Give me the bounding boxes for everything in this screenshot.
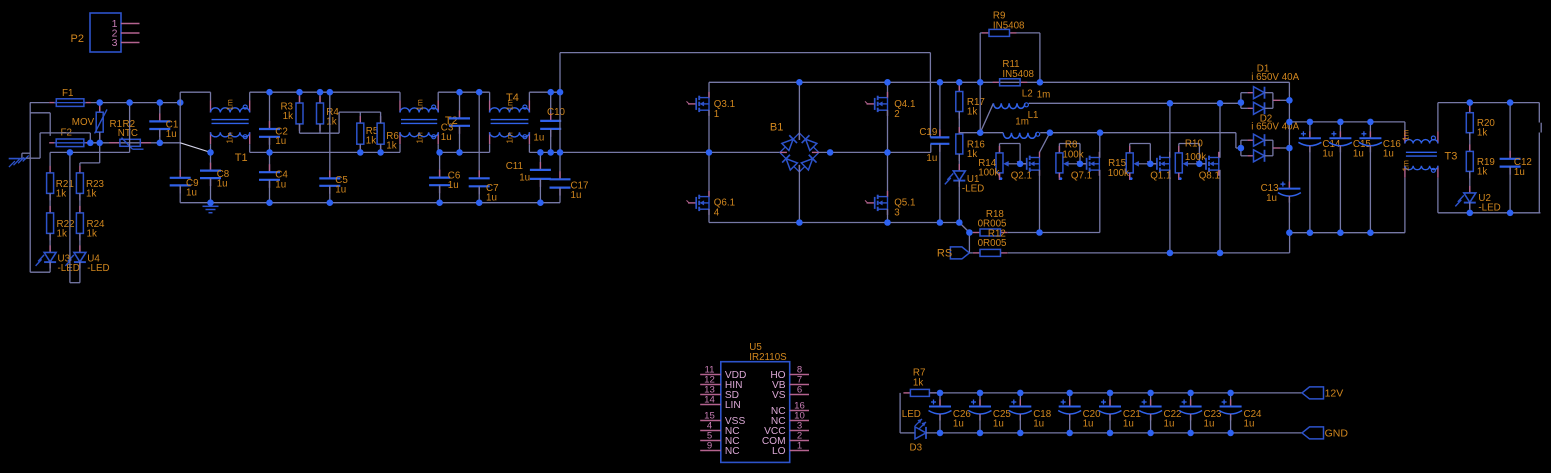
junction 12V rail / C23 (1187, 390, 1194, 397)
junction plus rail / C15 (1337, 119, 1344, 126)
pin 2 (COM) of U5 (790, 440, 809, 442)
wire R7 left riser (899, 393, 901, 433)
wire R6 bottom (380, 144, 382, 152)
junction bottom rail x=479 (476, 199, 483, 206)
transformer T1 (210, 101, 212, 113)
transistor Q7.1 (1078, 163, 1086, 165)
svg-text:1u: 1u (1514, 167, 1525, 178)
svg-text:1k: 1k (1477, 166, 1487, 177)
svg-text:R10: R10 (1185, 139, 1204, 150)
junction L2 rail / Q8 drain (1217, 100, 1224, 107)
transistor Q3.1 (688, 103, 696, 105)
resistor R7 (903, 392, 910, 394)
pin 1 of P2 (121, 23, 140, 25)
svg-text:14: 14 (704, 395, 715, 406)
svg-text:3: 3 (894, 207, 900, 218)
junction 12V rail / C25 (977, 390, 984, 397)
wire C7 bottom (478, 186, 480, 202)
diode B1 lower-right (795, 148, 823, 176)
wiper arrow of R8 (1067, 163, 1080, 165)
wire C4 bottom (269, 180, 271, 203)
svg-text:T3: T3 (1445, 150, 1458, 162)
wire C16 bottom (1369, 147, 1371, 233)
pin end dot of R10 (1179, 177, 1182, 180)
wire D1 cathode bracket (1265, 92, 1273, 94)
wire main vertical top (179, 92, 181, 170)
junction rail B x=270 (266, 149, 273, 156)
resistor R6 (380, 116, 382, 123)
junction top rail / R17 (956, 79, 963, 86)
capacitor C24 (1230, 400, 1232, 407)
junction L1 rail / Q7 drain (1097, 129, 1104, 136)
junction gnd rail / C14 (1307, 229, 1314, 236)
svg-text:1m: 1m (1401, 129, 1410, 141)
svg-text:1u: 1u (275, 179, 286, 190)
resistor R23 (79, 166, 81, 173)
wire C24 bottom (1230, 415, 1232, 433)
wire C11 top (539, 152, 541, 170)
inductor L1 (1003, 133, 1036, 139)
svg-text:T1: T1 (235, 152, 248, 164)
wire secondary bottom rail (1438, 212, 1540, 214)
transformer T3 (1404, 132, 1406, 144)
svg-text:1u: 1u (1033, 419, 1044, 430)
wire lower row riser (129, 103, 131, 153)
svg-text:GND: GND (1325, 428, 1349, 440)
svg-text:1u: 1u (519, 173, 530, 184)
wire NTC to T1 diagonal (180, 143, 210, 153)
junction secondary bottom / U2 (1467, 210, 1474, 217)
wire loop to L node (979, 82, 981, 132)
fuse F1 (49, 102, 56, 104)
svg-text:1k: 1k (1477, 128, 1487, 139)
wire R21-R22 (49, 193, 51, 213)
wire C22 top (1150, 393, 1152, 407)
wire R20 top (1469, 103, 1471, 113)
junction gnd rail / C15 (1337, 229, 1344, 236)
junction top rail / Q4 (884, 79, 891, 86)
wire R15 gate node drop (1149, 144, 1151, 164)
junction plus rail / C16 (1367, 119, 1374, 126)
wire R4 top (319, 92, 321, 103)
wire R9 loop right (1039, 33, 1041, 82)
transistor Q8.1 (1198, 163, 1206, 165)
wire C25 bottom (979, 415, 981, 433)
capacitor C7 (478, 170, 480, 178)
wire long top drop (929, 53, 931, 138)
wire R6 top (380, 112, 382, 123)
wire C21 top (1109, 393, 1111, 407)
wire C20 top (1069, 393, 1071, 407)
svg-text:-LED: -LED (58, 263, 80, 274)
wire lower row (50, 151, 130, 153)
wire RS riser to output (1289, 233, 1291, 253)
svg-text:C10: C10 (547, 107, 566, 118)
wire R15 top loop horizontal (1130, 143, 1151, 145)
junction rail B x=460 (456, 149, 463, 156)
svg-text:1m: 1m (505, 132, 514, 144)
IC U5 body (721, 362, 790, 463)
transformer T2 (399, 101, 401, 113)
junction top rail / loop right (1037, 79, 1044, 86)
svg-text:NC: NC (725, 446, 740, 457)
capacitor C17 (559, 171, 561, 179)
junction gate node x=1000 (1017, 161, 1024, 168)
wire C18 bottom (1019, 415, 1021, 433)
wire C6 top (439, 152, 441, 177)
junction secondary top / C12 (1507, 99, 1514, 106)
wire NTC rail (91, 142, 180, 144)
wire C2 top (269, 92, 271, 129)
wire C15 top (1339, 122, 1341, 138)
LED U2 (1469, 186, 1471, 193)
junction bottom rail / U1 (956, 219, 963, 226)
wire C3 bottom (459, 126, 461, 153)
svg-text:100k: 100k (978, 167, 999, 178)
junction rail A x=320 (317, 89, 324, 96)
wire C25 top (979, 393, 981, 407)
wire R8 stub (1058, 173, 1060, 178)
LED U4 (79, 245, 81, 252)
capacitor C6 (439, 170, 441, 178)
wire long top horizontal (560, 52, 930, 54)
svg-text:IN5408: IN5408 (1002, 69, 1034, 80)
junction F1 rail / main vertical (177, 99, 184, 106)
junction rail A x=479 (476, 89, 483, 96)
wire R18 to sources (1008, 232, 1100, 234)
svg-text:100k: 100k (1062, 149, 1083, 160)
wire D2 anode leads (1241, 139, 1248, 141)
svg-text:1m: 1m (505, 99, 514, 111)
wire rail B seg1 (250, 151, 400, 153)
svg-text:Q2.1: Q2.1 (1011, 171, 1032, 182)
wire Q6 source (708, 209, 710, 223)
junction GND rail / C18 (1017, 430, 1024, 437)
svg-text:1k: 1k (87, 229, 97, 240)
svg-text:-LED: -LED (1478, 202, 1500, 213)
wire ground horizontal (22, 152, 30, 154)
svg-text:MOV: MOV (72, 117, 95, 128)
wire long vertical (559, 53, 561, 180)
trimmer R8 (1058, 146, 1060, 153)
diode B1 lower-left (776, 148, 804, 176)
wire sense diagonal (959, 223, 969, 233)
wire Q6 drain (708, 152, 710, 197)
capacitor C10 (550, 113, 552, 121)
capacitor C1 (159, 113, 161, 121)
wire Q3 drain drop (708, 82, 710, 98)
wire R21 top pin (49, 152, 51, 166)
svg-text:1k: 1k (283, 111, 293, 122)
wire C19 side riser (930, 144, 932, 152)
wire R17-R16 (958, 112, 960, 135)
wire C20 bottom (1069, 415, 1071, 433)
wire C14 top (1309, 122, 1311, 138)
wire C14 bottom (1309, 147, 1311, 233)
svg-text:Q7.1: Q7.1 (1071, 171, 1092, 182)
wire R3 top (299, 92, 301, 103)
junction secondary top / R20 (1467, 99, 1474, 106)
wire GND rail (926, 432, 1302, 434)
ground (9, 158, 26, 160)
svg-text:4: 4 (714, 207, 720, 218)
junction plus rail / C14 (1307, 119, 1314, 126)
flag RS (950, 247, 969, 259)
pin 9 (NC) of U5 (700, 450, 721, 452)
wire R8 top loop riser (1058, 144, 1060, 153)
svg-text:IR2110S: IR2110S (749, 352, 787, 363)
junction rail B x=440 (436, 149, 443, 156)
junction GND rail / C23 (1187, 430, 1194, 437)
wire C19 top (939, 82, 941, 137)
wire C22 bottom (1150, 415, 1152, 433)
wire D3 anode lead (900, 432, 915, 434)
wire R10 top loop riser (1178, 144, 1180, 153)
junction top rail / B1 (796, 79, 803, 86)
svg-text:12V: 12V (1325, 388, 1344, 400)
wire ground drop (21, 153, 23, 158)
junction L node (977, 129, 984, 136)
diode D1 lower (1247, 107, 1253, 109)
wire rail A seg2 (250, 91, 400, 93)
wire rail B seg3 (529, 151, 780, 153)
svg-text:1u: 1u (441, 132, 452, 143)
junction GND rail / C26 (937, 430, 944, 437)
wire R10 gate node drop (1198, 144, 1200, 164)
svg-text:1u: 1u (1244, 419, 1255, 430)
diode D1 upper (1247, 92, 1253, 94)
junction R18 node (966, 229, 973, 236)
svg-text:1u: 1u (166, 129, 177, 140)
wire R8 top loop horizontal (1059, 143, 1080, 145)
wire L2 diagonal (980, 103, 993, 132)
resistor R21 (49, 166, 51, 173)
junction plus bus / gnd rail (1286, 229, 1293, 236)
wire RS drop (968, 233, 970, 253)
junction bottom rail x=440 (436, 199, 443, 206)
resistor R16 (958, 127, 960, 134)
transistor Q6.1 (688, 202, 696, 204)
junction rail B x=210 (207, 149, 214, 156)
wire C10 top (550, 92, 552, 121)
capacitor C9 (179, 170, 181, 178)
svg-text:F1: F1 (62, 88, 73, 99)
junction rail B x=560 (557, 149, 564, 156)
diode D2 upper element (1254, 134, 1265, 146)
wire ground branch drop (89, 133, 91, 143)
capacitor C11 (539, 162, 541, 170)
wire R19-U2 (1469, 171, 1471, 193)
junction F1 rail / riser (126, 99, 133, 106)
svg-text:i 650V 40A: i 650V 40A (1251, 72, 1299, 83)
wire F1 left (30, 102, 49, 104)
junction gnd rail / C16 (1367, 229, 1374, 236)
wire right edge (1538, 103, 1540, 123)
wire C18 top (1019, 393, 1021, 407)
junction rail B x=360 (357, 149, 364, 156)
trimmer R14 (999, 146, 1001, 153)
capacitor C3 (459, 110, 461, 118)
wire L2 output (1029, 102, 1241, 104)
pin 12 (HIN) of U5 (700, 384, 721, 386)
transistor Q5.1 (867, 202, 875, 204)
thermistor R2 mark (122, 138, 133, 150)
wire rail A seg1 (180, 91, 210, 93)
capacitor C22 (1150, 400, 1152, 407)
wire C9 bottom (179, 185, 181, 202)
svg-text:1u: 1u (1322, 149, 1333, 160)
resistor R22 (49, 206, 51, 213)
wire R18 left (969, 232, 973, 234)
diode D1 lower element (1254, 102, 1265, 114)
capacitor C20 (1069, 400, 1071, 407)
svg-text:1m: 1m (225, 99, 234, 111)
svg-text:-LED: -LED (962, 184, 984, 195)
wire C10 bottom (550, 129, 552, 153)
junction top rail / C19 (937, 79, 944, 86)
wire C2 bottom (269, 137, 271, 153)
wire secondary top rail (1438, 102, 1539, 104)
junction top rail / loop left (977, 79, 984, 86)
resistor R9 (982, 32, 989, 34)
wire Q1.1 gate link (1150, 163, 1156, 165)
wire C15 bottom (1339, 147, 1341, 233)
svg-text:L1: L1 (1028, 110, 1039, 121)
wire C3 top (459, 92, 461, 118)
resistor R12 (973, 252, 980, 254)
junction gate node x=1059 (1077, 161, 1084, 168)
junction bottom rail / C19 (937, 219, 944, 226)
pin 13 (SD) of U5 (700, 394, 721, 396)
junction rail A x=460 (456, 89, 463, 96)
junction bottom rail x=270 (266, 199, 273, 206)
wire R16-U1 (958, 154, 960, 171)
pin 11 (VDD) of U5 (700, 374, 721, 376)
wiper arrow of R14 (1008, 163, 1021, 165)
wire C21 bottom (1109, 415, 1111, 433)
wire B1 top pin (798, 133, 800, 140)
svg-text:VS: VS (772, 390, 786, 401)
wire R14 stub (999, 173, 1001, 178)
capacitor C2 (269, 121, 271, 129)
junction rail A x=300 (296, 89, 303, 96)
varistor R1 diagonal (95, 109, 107, 133)
svg-text:1u: 1u (1164, 419, 1175, 430)
wire input left vertical (29, 103, 31, 273)
wire R5 bottom (359, 144, 361, 152)
junction NTC rail / R1 (96, 140, 103, 147)
fuse F2 (49, 142, 56, 144)
wire R15 stub (1129, 173, 1131, 178)
wire Q2 drain diagonal (1040, 133, 1050, 153)
junction rail B x=540 (537, 149, 544, 156)
junction GND rail / C20 (1066, 430, 1073, 437)
resistor R4 (319, 96, 321, 103)
wire R9 left lead (980, 32, 982, 34)
capacitor C4 (269, 164, 271, 172)
flag 12V (1302, 387, 1324, 399)
wire R3 bottom (299, 124, 301, 133)
svg-text:1u: 1u (335, 185, 346, 196)
wire B1 left pin (780, 151, 787, 153)
svg-text:NTC: NTC (118, 128, 138, 139)
capacitor C25 (979, 400, 981, 407)
wire rail B seg2 (438, 151, 489, 153)
svg-text:D3: D3 (910, 442, 923, 453)
pin 4 (NC) of U5 (700, 430, 721, 432)
wire Q7.1 source (1099, 170, 1101, 233)
trimmer R10 (1178, 146, 1180, 153)
svg-text:1u: 1u (486, 192, 497, 203)
junction plus bus / D2 (1286, 145, 1293, 152)
capacitor C26 (939, 400, 941, 407)
junction rail B x=381 (377, 149, 384, 156)
wire D2 anode bus (1240, 140, 1242, 156)
svg-text:RS: RS (937, 248, 952, 260)
wire C23 top (1190, 393, 1192, 407)
resistor R18 (973, 232, 980, 234)
junction RS rail / Q1 source (1167, 250, 1174, 257)
pin 7 (VB) of U5 (790, 384, 809, 386)
junction NTC rail / C1 (157, 140, 164, 147)
junction gate node x=1130 (1147, 161, 1154, 168)
pin end dot of R14 (1000, 177, 1003, 180)
wire Q8.1 drain (1219, 103, 1221, 158)
svg-text:1m: 1m (1401, 160, 1410, 172)
diode B1 upper-left (776, 129, 804, 157)
svg-text:1u: 1u (275, 136, 286, 147)
diode B1 upper-right (795, 129, 823, 157)
svg-text:1u: 1u (217, 178, 228, 189)
svg-text:LO: LO (772, 446, 786, 457)
svg-text:1k: 1k (86, 189, 96, 200)
svg-text:1k: 1k (57, 229, 67, 240)
wire plus bus lower (1288, 198, 1290, 233)
wire rail A seg3 (438, 91, 489, 93)
LED U1 (958, 164, 960, 171)
junction mid rail / B1 right (827, 149, 834, 156)
svg-text:1u: 1u (1353, 149, 1364, 160)
wire R16R17 node row (959, 132, 1003, 134)
wire output plus rail (1289, 121, 1405, 123)
junction 12V rail / C20 (1066, 390, 1073, 397)
wire top rail (709, 81, 1289, 83)
transistor Q1.1 (1149, 163, 1157, 165)
junction RS rail / Q8 source (1217, 250, 1224, 257)
wire R5R6 top rail (339, 111, 381, 113)
svg-text:1k: 1k (386, 140, 396, 151)
wire R9 right lead (1016, 32, 1040, 34)
junction rail A x=330 (327, 89, 334, 96)
svg-text:1u: 1u (926, 153, 937, 164)
wire C7 top (478, 92, 480, 178)
junction R18 rail / Q2 source (1036, 229, 1043, 236)
svg-text:Q8.1: Q8.1 (1199, 171, 1220, 182)
svg-text:1k: 1k (913, 377, 923, 388)
wire L1 to D2 anodes (1236, 147, 1241, 149)
junction rail A x=551 (547, 89, 554, 96)
resistor R3 (299, 96, 301, 103)
junction L2 rail / Q1 drain (1167, 100, 1174, 107)
svg-text:1k: 1k (326, 116, 336, 127)
svg-text:1k: 1k (56, 189, 66, 200)
svg-text:LED: LED (902, 409, 921, 420)
svg-text:2: 2 (894, 109, 899, 120)
wire C5 bottom (329, 186, 331, 203)
resistor R17 (958, 85, 960, 92)
junction plus bus / D1 (1286, 97, 1293, 104)
wire Q3 source (708, 110, 710, 152)
